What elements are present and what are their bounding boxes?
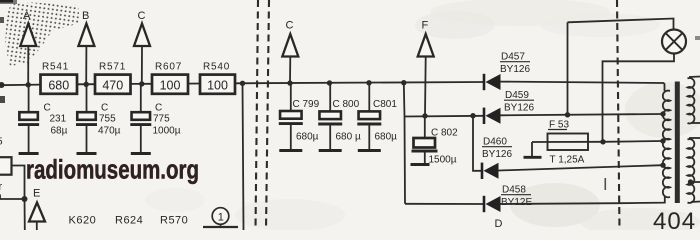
junction under arrow C (second) bbox=[287, 80, 292, 85]
svg-text:R607: R607 bbox=[155, 62, 182, 73]
node E (connector arrow) bbox=[29, 188, 45, 222]
node B (connector arrow) bbox=[78, 10, 94, 46]
svg-text:BY12E: BY12E bbox=[501, 197, 532, 208]
boundary dashed line 3 bbox=[617, 0, 620, 230]
svg-text:K620: K620 bbox=[69, 215, 97, 227]
junction bottom-left bbox=[22, 196, 28, 202]
svg-text:r: r bbox=[0, 181, 3, 193]
svg-text:B: B bbox=[82, 10, 89, 22]
diode D459 bbox=[484, 90, 534, 124]
svg-text:T 1,25A: T 1,25A bbox=[550, 155, 585, 166]
wire branch x404 from top rail down to bottom rail bbox=[404, 83, 405, 204]
svg-text:D: D bbox=[495, 218, 503, 230]
svg-text:F 53: F 53 bbox=[549, 120, 569, 131]
wire R571 to R607 bbox=[131, 83, 152, 85]
wire left box to vertical bbox=[12, 166, 25, 200]
wire arrow C down to rail bbox=[141, 46, 143, 84]
diode D457 bbox=[484, 52, 530, 91]
svg-text:D460: D460 bbox=[483, 137, 507, 148]
svg-text:D458: D458 bbox=[502, 185, 526, 196]
terminal 1 (circled) bbox=[203, 208, 238, 227]
svg-text:D459: D459 bbox=[505, 90, 529, 101]
junction rail2 D460 branch bbox=[470, 113, 475, 118]
junction rail2 C802 branch bbox=[422, 113, 427, 118]
svg-text:C801: C801 bbox=[373, 99, 397, 110]
svg-text:68µ: 68µ bbox=[51, 126, 68, 137]
svg-text:C 799: C 799 bbox=[293, 99, 320, 110]
ground chassis symbol at fuse bbox=[524, 142, 542, 157]
resistor R571 bbox=[95, 62, 131, 94]
svg-text:775: 775 bbox=[153, 114, 170, 125]
svg-text:755: 755 bbox=[99, 114, 116, 125]
wire R541 to R571 bbox=[77, 83, 95, 85]
wire lamp top horizontal bbox=[568, 19, 674, 30]
wire secondary bottom stub bbox=[691, 201, 700, 204]
svg-text:C 802: C 802 bbox=[431, 128, 458, 139]
wire secondary lower top stub bbox=[689, 137, 700, 139]
capacitor C802 bbox=[411, 116, 459, 166]
resistor R541 bbox=[41, 62, 78, 94]
svg-text:E: E bbox=[33, 188, 40, 200]
resistor R540 bbox=[200, 62, 235, 94]
svg-text:680: 680 bbox=[48, 79, 69, 93]
wire R607 to R540 bbox=[188, 83, 200, 85]
capacitor C799 bbox=[279, 85, 320, 151]
svg-text:C 800: C 800 bbox=[333, 99, 360, 110]
transformer secondary winding lower bbox=[688, 139, 695, 203]
wire lamp bottom to x602 vertical bbox=[603, 54, 675, 142]
svg-text:1000µ: 1000µ bbox=[153, 126, 181, 137]
junction main rail x242 bbox=[240, 81, 245, 86]
capacitor C800 bbox=[318, 85, 361, 151]
wire secondary tap stub bbox=[691, 181, 700, 183]
wire main rail segment left edge to R541 bbox=[0, 84, 41, 87]
wire arrow F down through rail to lower rail bbox=[424, 57, 427, 116]
capacitor C775 bbox=[130, 86, 180, 154]
junction rail2 lamp branch bbox=[565, 112, 570, 117]
svg-text:R571: R571 bbox=[99, 62, 126, 73]
junction transformer tap rail2 bbox=[660, 111, 665, 116]
svg-text:404: 404 bbox=[653, 208, 696, 230]
wire secondary upper bottom stub bbox=[692, 122, 700, 124]
node left-edge terminal bbox=[0, 82, 5, 88]
wire lamp branch vertical x567 bbox=[567, 22, 569, 115]
junction C800 bbox=[327, 80, 332, 85]
svg-text:R570: R570 bbox=[160, 215, 188, 227]
capacitor C755 bbox=[76, 87, 121, 154]
svg-text:100: 100 bbox=[160, 79, 181, 93]
svg-text:BY126: BY126 bbox=[500, 64, 530, 75]
wire arrow C2 down to rail bbox=[289, 57, 291, 84]
svg-text:470: 470 bbox=[102, 79, 123, 93]
wire arrow E stem bbox=[36, 222, 38, 231]
fuse F53 bbox=[532, 120, 603, 166]
boundary dashed line 2 bbox=[266, 0, 269, 230]
capacitor C801 bbox=[357, 85, 397, 151]
resistor R607 bbox=[152, 62, 188, 94]
wire arrow B down to rail bbox=[85, 46, 87, 84]
svg-text:680µ: 680µ bbox=[375, 132, 398, 143]
transformer core bbox=[675, 82, 680, 204]
resistor at left edge (cut off) bbox=[0, 157, 12, 175]
wire D457 to transformer bbox=[501, 82, 665, 91]
capacitor C231 bbox=[18, 87, 68, 154]
svg-text:231: 231 bbox=[50, 114, 67, 125]
svg-text:1500µ: 1500µ bbox=[429, 155, 457, 166]
junction secondary tap bbox=[688, 179, 693, 184]
boundary dashed line 1 bbox=[256, 0, 259, 230]
wire rail2 D459 to transformer bbox=[501, 114, 663, 115]
junction transformer tap fuse bbox=[660, 138, 665, 143]
svg-text:R624: R624 bbox=[115, 215, 143, 227]
transformer primary winding bbox=[663, 91, 670, 198]
svg-text:R540: R540 bbox=[203, 62, 230, 73]
node A (connector arrow) bbox=[20, 10, 36, 46]
svg-text:680µ: 680µ bbox=[296, 132, 319, 143]
svg-text:R541: R541 bbox=[42, 62, 69, 73]
transformer secondary winding upper bbox=[688, 78, 695, 123]
lamp (signal bulb) bbox=[662, 30, 686, 54]
svg-text:C: C bbox=[101, 103, 108, 114]
svg-text:5: 5 bbox=[0, 137, 3, 148]
svg-text:D457: D457 bbox=[501, 52, 525, 63]
node C (connector arrow) bbox=[134, 10, 150, 46]
junction transformer tap rail4 bbox=[660, 163, 665, 168]
junction under arrow A bbox=[26, 82, 31, 87]
svg-text:F: F bbox=[422, 20, 429, 32]
diode D460 bbox=[482, 137, 512, 180]
wire rail5 corner to D458 bbox=[405, 203, 484, 205]
wire secondary upper top stub bbox=[689, 76, 700, 79]
junction C801 bbox=[366, 80, 371, 85]
wire R540 to diode D457 bbox=[235, 82, 484, 83]
junction under arrow C bbox=[139, 81, 144, 86]
svg-text:C: C bbox=[44, 103, 51, 114]
junction fuse output bbox=[600, 139, 605, 144]
wire D458 to transformer bottom bbox=[501, 197, 665, 205]
svg-text:1: 1 bbox=[218, 211, 224, 223]
svg-text:A: A bbox=[23, 10, 31, 22]
svg-text:C: C bbox=[155, 103, 162, 114]
wire fuse to transformer tap bbox=[603, 140, 663, 143]
wire junction x242 down to bottom edge bbox=[243, 83, 244, 230]
svg-text:680 µ: 680 µ bbox=[336, 132, 361, 143]
wire arrow A down to rail bbox=[27, 46, 29, 84]
wire bottom-left horizontal bbox=[0, 195, 25, 231]
wire D460 branch vertical bbox=[473, 116, 482, 171]
node F (connector arrow) bbox=[418, 20, 434, 57]
svg-text:100: 100 bbox=[207, 79, 228, 93]
svg-text:BY126: BY126 bbox=[482, 149, 512, 160]
svg-text:BY126: BY126 bbox=[504, 103, 534, 114]
diode D458 bbox=[484, 185, 532, 213]
svg-text:C: C bbox=[286, 20, 294, 32]
junction x404 branch bbox=[401, 80, 406, 85]
svg-text:radiomuseum.org: radiomuseum.org bbox=[26, 155, 199, 185]
svg-text:470µ: 470µ bbox=[98, 126, 121, 137]
wire rail2 corner to D459 bbox=[405, 115, 485, 118]
node C2 (connector arrow) bbox=[282, 20, 298, 57]
svg-text:C: C bbox=[138, 10, 146, 22]
junction under arrow B bbox=[84, 82, 89, 87]
wire D460 to transformer tap bbox=[499, 165, 663, 170]
